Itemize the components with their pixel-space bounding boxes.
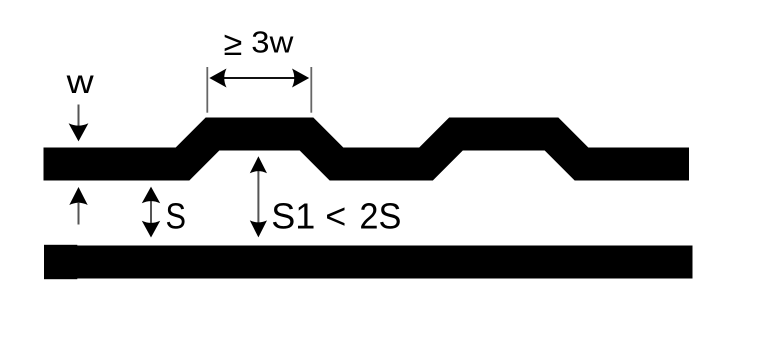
svg-text:S: S	[166, 195, 187, 236]
svg-text:S1 <: S1 <	[271, 195, 346, 236]
top trace (serpentine signal conductor, width w)	[44, 134, 690, 164]
svg-text:≥: ≥	[224, 25, 243, 63]
w arrow upper (points down to trace top edge)	[69, 105, 89, 142]
svg-text:3w: 3w	[251, 25, 294, 60]
bottom trace (straight reference conductor)	[44, 246, 693, 279]
dimension S (spacing between traces), double-headed vertical arrow	[142, 187, 160, 238]
dimension >=3w (bump top length) extension line left	[206, 67, 208, 113]
svg-text:w: w	[66, 63, 94, 100]
dimension S1 (spacing at bump), double-headed vertical arrow	[250, 156, 267, 237]
dimension >=3w double-headed horizontal arrow	[209, 69, 309, 88]
svg-text:2S: 2S	[359, 195, 401, 236]
dimension >=3w extension line right	[310, 67, 312, 113]
w arrow lower (points up to trace bottom edge)	[69, 187, 87, 225]
bottom trace left end cap	[44, 245, 77, 279]
